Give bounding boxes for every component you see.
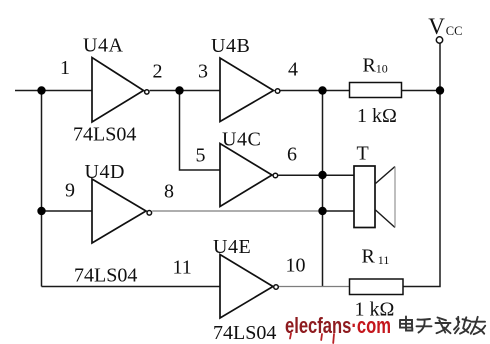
svg-text:CC: CC — [446, 24, 463, 38]
wire mid rail x=322.5 from node 4 down to U4E output net — [322, 91, 324, 287]
wire U4D output pin8 (light run) — [152, 210, 322, 212]
resistor R10 body — [350, 83, 402, 98]
watermark drips (elecfans logo) — [290, 334, 334, 344]
svg-text:11: 11 — [378, 253, 390, 267]
svg-text:1: 1 — [60, 57, 70, 79]
junction node Vcc/R10 — [436, 86, 444, 94]
svg-text:U4B: U4B — [211, 35, 250, 57]
svg-text:R: R — [362, 245, 376, 267]
inverter U4E — [220, 255, 278, 319]
speaker T cone — [376, 167, 396, 228]
svg-text:74LS04: 74LS04 — [213, 322, 276, 344]
wire U4A output node 2 to U4B input pin3 — [150, 90, 220, 92]
svg-text:8: 8 — [164, 181, 174, 203]
svg-text:10: 10 — [286, 255, 306, 277]
wire U4C output pin6 to speaker top — [278, 174, 354, 176]
wire Vcc terminal down to node — [439, 43, 441, 91]
svg-text:11: 11 — [173, 257, 192, 279]
junction node 4 — [318, 86, 326, 94]
resistor R11 body — [350, 279, 404, 295]
junction node 8 speaker bottom — [318, 207, 326, 215]
svg-text:R: R — [363, 55, 377, 77]
svg-text:9: 9 — [65, 180, 75, 202]
watermark elecfans.com — [285, 313, 391, 338]
Vcc terminal — [436, 37, 442, 43]
inverter U4B — [220, 58, 280, 122]
svg-text:elecfans·com: elecfans·com — [285, 313, 391, 338]
svg-text:V: V — [428, 14, 445, 39]
inverter U4D — [92, 179, 152, 243]
svg-text:U4D: U4D — [85, 161, 125, 183]
wire right rail down to R11 — [403, 91, 440, 287]
inverter U4C — [220, 144, 278, 207]
svg-text:3: 3 — [198, 61, 208, 83]
speaker T body — [354, 166, 375, 228]
wire node 8 to speaker bottom — [323, 210, 355, 212]
wire bottom to U4E input pin11 — [42, 286, 221, 288]
svg-text:2: 2 — [153, 61, 163, 83]
wire U4B output pin4 to R10 — [280, 90, 349, 92]
junction node 2 — [175, 86, 183, 94]
svg-text:4: 4 — [288, 59, 298, 81]
svg-text:U4A: U4A — [83, 35, 123, 57]
wire U4D input pin9 — [42, 210, 93, 212]
svg-text:5: 5 — [196, 145, 206, 167]
watermark chinese characters (drawn strokes) — [400, 317, 485, 335]
char fa — [436, 318, 451, 334]
speaker T cone mouth edge — [394, 167, 396, 228]
svg-text:1 kΩ: 1 kΩ — [357, 105, 397, 127]
svg-text:U4E: U4E — [213, 236, 251, 258]
junction node 6 speaker top — [318, 171, 326, 179]
wire input to U4A pin1 — [15, 90, 92, 92]
char dian — [400, 317, 412, 331]
char zi — [417, 319, 432, 333]
wire left rail down from node at x=41.5 — [41, 91, 43, 287]
svg-text:T: T — [357, 143, 369, 165]
wire U4E output pin10 to R11 (light run) — [279, 286, 350, 288]
svg-text:U4C: U4C — [222, 129, 261, 151]
char shao — [454, 317, 470, 334]
junction node at input — [37, 86, 45, 94]
char you — [471, 317, 486, 334]
svg-text:6: 6 — [287, 144, 297, 166]
wire R10 right to Vcc rail — [402, 90, 441, 92]
wire node 2 down to U4C pin5 — [180, 91, 221, 171]
svg-text:10: 10 — [376, 62, 388, 76]
inverter U4A — [92, 58, 149, 123]
junction node 9 — [37, 207, 45, 215]
svg-text:74LS04: 74LS04 — [74, 265, 137, 287]
svg-text:74LS04: 74LS04 — [73, 124, 136, 146]
